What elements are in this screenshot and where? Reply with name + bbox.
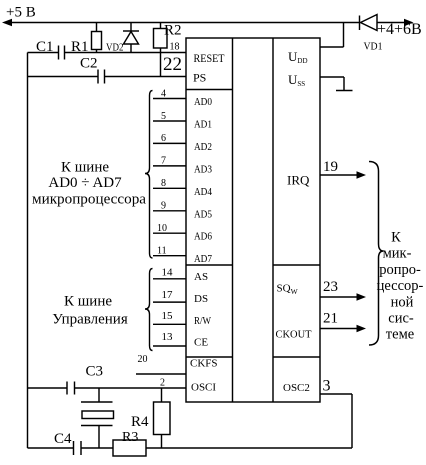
wire IRQ pin 19 arrow: [320, 159, 366, 179]
pin label CKFS: [190, 358, 218, 370]
svg-text:19: 19: [323, 159, 338, 175]
svg-text:мик-: мик-: [383, 246, 412, 262]
wire CKOUT pin 21 arrow: [320, 311, 366, 333]
svg-text:10: 10: [157, 223, 167, 234]
pin label USS: [288, 72, 305, 88]
svg-text:CKFS: CKFS: [190, 358, 218, 370]
pin label AD7: [194, 253, 212, 265]
wire USS to ground: [320, 77, 344, 91]
pin label UDD: [288, 49, 308, 65]
wire AD2 pin 6: [153, 133, 186, 144]
wire left vertical rail: [27, 53, 29, 449]
svg-text:VD1: VD1: [364, 42, 383, 53]
pin number 22: [163, 54, 182, 75]
IC U1 outline: [186, 38, 320, 402]
svg-text:микропроцессора: микропроцессора: [32, 192, 146, 208]
svg-text:9: 9: [161, 201, 166, 212]
wire DS pin 17: [153, 289, 186, 302]
wire AD1 pin 5: [153, 111, 186, 122]
svg-text:AD0: AD0: [194, 96, 212, 108]
wire SQW pin 23 arrow: [320, 279, 366, 301]
svg-text:4: 4: [161, 88, 166, 99]
resistor R2: [154, 23, 182, 77]
pin label AD4: [194, 186, 212, 198]
resistor R1: [71, 23, 102, 56]
pin label AS: [194, 271, 208, 283]
svg-text:К шине: К шине: [61, 160, 109, 176]
node +5V rail label: [6, 5, 36, 21]
svg-text:Управления: Управления: [52, 312, 128, 328]
brace AD0-AD7 group: [145, 91, 153, 259]
wire +5V top rail with left arrow: [2, 19, 360, 27]
pin label AD3: [194, 163, 212, 175]
pin label OSC2: [283, 382, 310, 394]
svg-text:14: 14: [162, 267, 174, 279]
ground: [336, 90, 353, 92]
svg-text:+4+6В: +4+6В: [377, 21, 422, 38]
capacitor C3: [67, 364, 103, 395]
svg-text:20: 20: [138, 354, 148, 365]
wire AD4 pin 8: [153, 178, 186, 189]
pin label R/W: [194, 315, 212, 327]
pin label IRQ: [287, 173, 310, 188]
pin label AD0: [194, 96, 212, 108]
label K shine AD0-AD7 mikroprocessora: [32, 160, 146, 208]
svg-text:7: 7: [161, 156, 166, 167]
pin label PS: [193, 71, 206, 85]
svg-text:AS: AS: [194, 271, 208, 283]
svg-text:17: 17: [162, 289, 174, 301]
IC U1 left column separators: [186, 89, 233, 91]
pin label OSCI: [191, 382, 216, 394]
wire AS pin 14: [153, 267, 186, 279]
pin label AD1: [194, 119, 212, 131]
pin label RESET: [194, 51, 226, 65]
svg-text:+5 В: +5 В: [6, 5, 36, 21]
svg-text:R2: R2: [164, 23, 182, 39]
svg-text:2: 2: [160, 378, 165, 389]
wire CKFS pin 20: [136, 354, 186, 374]
wire PS net: [28, 76, 187, 78]
svg-text:13: 13: [162, 331, 174, 343]
capacitor C2: [80, 56, 105, 84]
svg-text:DS: DS: [194, 293, 208, 305]
svg-text:IRQ: IRQ: [287, 173, 310, 188]
IC U1 right column separators: [273, 264, 320, 266]
svg-text:сис-: сис-: [388, 311, 414, 327]
resistor R4: [131, 388, 170, 448]
svg-text:8: 8: [161, 178, 166, 189]
pin label CKOUT: [276, 329, 312, 341]
brace control group: [145, 269, 153, 351]
pin label AD5: [194, 208, 212, 220]
pin label DS: [194, 293, 208, 305]
svg-text:AD2: AD2: [194, 141, 212, 153]
svg-text:PS: PS: [193, 71, 206, 85]
pin label SQW: [277, 283, 299, 297]
capacitor C4: [54, 431, 81, 455]
capacitor C1: [36, 39, 65, 60]
svg-text:ной: ной: [391, 294, 414, 310]
svg-text:23: 23: [323, 279, 338, 295]
svg-text:CE: CE: [194, 337, 208, 349]
wire UDD to rail: [320, 23, 344, 48]
svg-text:AD0 ÷ AD7: AD0 ÷ AD7: [48, 175, 122, 191]
wire battery input with right arrow: [377, 19, 422, 38]
crystal ZQ1: [81, 388, 114, 448]
svg-text:AD1: AD1: [194, 119, 212, 131]
wire OSCI net pin 2: [28, 378, 187, 389]
svg-text:AD4: AD4: [194, 186, 212, 198]
svg-text:OSCI: OSCI: [191, 382, 216, 394]
svg-text:теме: теме: [386, 327, 414, 343]
svg-text:C2: C2: [80, 56, 98, 72]
diode VD1: [360, 15, 383, 53]
svg-text:18: 18: [170, 42, 180, 53]
pin number 3: [323, 378, 331, 395]
label K shine Upravleniya: [52, 294, 128, 328]
svg-text:3: 3: [323, 378, 331, 395]
svg-text:C3: C3: [86, 364, 104, 380]
svg-text:RESET: RESET: [194, 51, 226, 65]
pin label AD6: [194, 231, 212, 243]
svg-text:ропро-: ропро-: [379, 262, 421, 278]
pin label CE: [194, 337, 208, 349]
svg-text:R4: R4: [131, 414, 149, 430]
wire AD3 pin 7: [153, 156, 186, 167]
svg-text:5: 5: [161, 111, 166, 122]
svg-text:R3: R3: [122, 430, 138, 445]
pin number 18: [170, 42, 180, 53]
svg-text:К шине: К шине: [64, 294, 112, 310]
svg-text:C4: C4: [54, 431, 72, 447]
wire bottom OSC2 net: [28, 394, 353, 448]
svg-text:11: 11: [157, 246, 167, 257]
resistor R3: [113, 430, 146, 456]
pin label AD2: [194, 141, 212, 153]
wire R/W pin 15: [153, 310, 186, 324]
diode VD2: [106, 23, 139, 54]
svg-text:CKOUT: CKOUT: [276, 329, 312, 341]
svg-text:цессор-: цессор-: [377, 278, 424, 294]
brace microprocessor system group: [369, 162, 384, 346]
wire CE pin 13: [153, 331, 186, 346]
svg-text:15: 15: [162, 310, 174, 322]
wire AD6 pin 10: [153, 223, 186, 234]
svg-text:6: 6: [161, 133, 166, 144]
wire AD5 pin 9: [153, 201, 186, 212]
wire RESET net (rail to pin): [28, 52, 187, 54]
svg-text:К: К: [391, 230, 401, 246]
label K mikroprocessornoy sisteme: [377, 230, 424, 343]
wire AD0 pin 4: [153, 88, 186, 99]
svg-text:AD3: AD3: [194, 163, 212, 175]
IC U1 inner column lines: [232, 38, 234, 402]
svg-text:AD6: AD6: [194, 231, 212, 243]
wire AD7 pin 11: [153, 246, 186, 257]
svg-text:R/W: R/W: [194, 315, 212, 327]
svg-text:AD7: AD7: [194, 253, 212, 265]
svg-text:21: 21: [323, 311, 338, 327]
svg-text:OSC2: OSC2: [283, 382, 310, 394]
svg-text:AD5: AD5: [194, 208, 212, 220]
svg-text:22: 22: [163, 54, 182, 75]
